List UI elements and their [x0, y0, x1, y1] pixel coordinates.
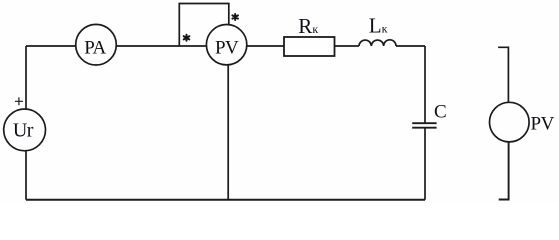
- svg-text:C: C: [434, 102, 447, 123]
- svg-text:Ur: Ur: [13, 119, 34, 141]
- svg-text:PA: PA: [84, 38, 106, 59]
- svg-text:PV: PV: [531, 113, 555, 134]
- svg-text:PV: PV: [215, 38, 239, 59]
